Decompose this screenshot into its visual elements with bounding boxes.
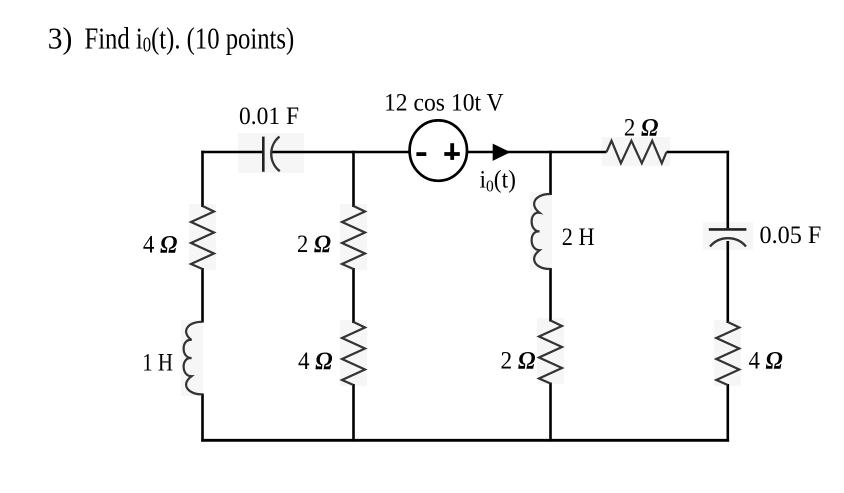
svg-text:Find i0(t). (10 points): Find i0(t). (10 points): [85, 21, 295, 57]
title: [48, 21, 295, 57]
inductor L2 2H: [532, 194, 551, 269]
resistor R1 2ohm horizontal top: [607, 141, 667, 164]
svg-text:3): 3): [48, 21, 73, 56]
capacitor C2 0.05 F flat plate: [709, 228, 747, 231]
svg-text:2 H: 2 H: [562, 224, 595, 251]
capacitor C1 0.01 F flat plate: [262, 137, 265, 172]
wire cap to source: [272, 151, 412, 154]
capacitor C1 0.01 F curved plate: [271, 137, 280, 172]
resistor R4 4ohm branch2 bottom: [342, 322, 365, 385]
svg-text:1 H: 1 H: [142, 350, 173, 377]
left branch wires: [201, 151, 204, 207]
svg-text:4 Ω: 4 Ω: [749, 347, 783, 374]
svg-text:2 Ω: 2 Ω: [624, 115, 659, 142]
svg-text:0.01 F: 0.01 F: [239, 103, 299, 130]
resistor R3 2ohm branch2 top: [342, 206, 365, 269]
resistor R6 4ohm right: [716, 322, 739, 385]
voltage source U1 circle: [410, 120, 467, 180]
wire source to resistor: [466, 151, 607, 154]
plus sign: [444, 152, 460, 156]
svg-text:2 Ω: 2 Ω: [297, 231, 331, 258]
wire top-left horizontal: [201, 151, 263, 154]
capacitor C2 0.05 F curved plate: [710, 238, 746, 246]
svg-text:4 Ω: 4 Ω: [298, 348, 333, 375]
current arrow: [493, 144, 511, 161]
resistor R5 2ohm branch3: [539, 321, 562, 384]
resistor R2 4ohm left: [191, 206, 214, 269]
minus sign: [416, 152, 426, 156]
wire resistor to right corner: [667, 151, 730, 154]
svg-text:0.05 F: 0.05 F: [760, 222, 822, 249]
right branch wires: [726, 151, 729, 230]
bottom wire: [201, 439, 729, 442]
svg-text:12 cos 10t V: 12 cos 10t V: [384, 89, 504, 116]
branch2 wires: [352, 151, 355, 207]
svg-text:i0(t): i0(t): [480, 166, 517, 195]
branch3 wires: [549, 151, 552, 195]
svg-text:2 Ω: 2 Ω: [501, 347, 536, 374]
svg-text:4 Ω: 4 Ω: [143, 231, 178, 258]
component shading boxes: [181, 133, 753, 396]
inductor L1 1H: [184, 322, 203, 395]
